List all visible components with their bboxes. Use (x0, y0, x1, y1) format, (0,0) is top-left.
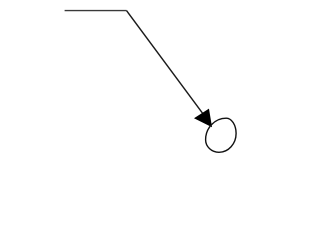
arrowhead (195, 109, 211, 126)
wire horizontal segment (65, 10, 127, 12)
wire diagonal segment (127, 11, 205, 116)
node ellipse (206, 118, 237, 152)
